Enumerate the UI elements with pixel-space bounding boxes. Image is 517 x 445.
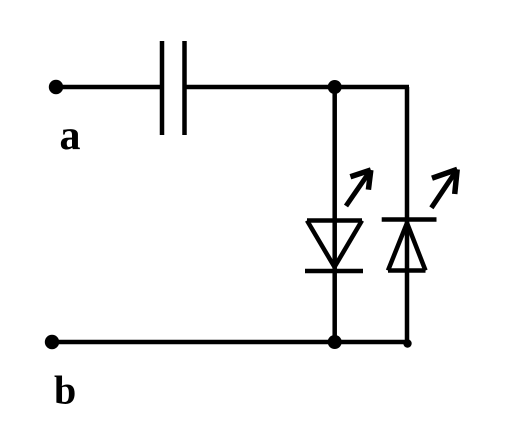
- svg-text:a: a: [60, 113, 81, 159]
- svg-text:b: b: [54, 368, 76, 413]
